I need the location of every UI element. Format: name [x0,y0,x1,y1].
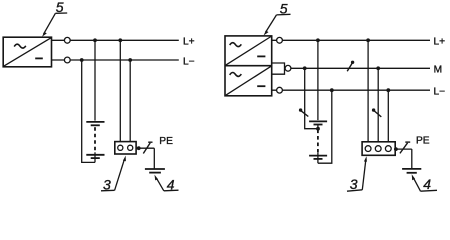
earth electrode (right): stem [317,153,319,163]
wire L&#8722; (left) [52,59,179,61]
terminal 1 circle (left block) [118,145,123,150]
AC symbol lower cell [230,72,242,76]
wire from L+ to terminal 1 (right block) [367,40,369,142]
earth electrode (left): long bar [86,154,104,156]
svg-text:4: 4 [423,176,431,192]
label 5 (right) with underline, leader and arrowhead [264,0,291,35]
wire from M to terminal 2 (right block) [377,68,379,142]
junction dot L+ / terminal block (right) [366,38,370,42]
PE disconnect slash (left) [143,143,150,154]
junction dot L+ / terminal block [118,38,122,42]
terminal block X2 (right, label 3) [362,142,395,156]
label 3 (left) with underline, leader and arrowhead [101,156,126,193]
junction dot at block output (right) [394,147,398,151]
svg-text:3: 3 [350,176,358,192]
removable link (dashed) to earth electrode (right) [317,130,319,153]
junction dot L+ / earth link [93,38,97,42]
terminal circle on right L+ [277,37,283,43]
earth symbol top of link (right): short bar [314,124,323,126]
earth symbol top of link (right): long bar [309,120,327,122]
label 4 (right) with underline, leader and arrowhead [412,174,437,192]
wire from L+ down to earth link (left) [94,40,96,120]
wire M (right) [285,67,431,69]
svg-text:L+: L+ [183,37,195,48]
svg-text:L−: L− [434,87,446,98]
wire from L&#8722; down to earth hook (right) [318,90,332,163]
label 3 (right) with underline, leader and arrowhead [347,156,367,192]
optional-link slash with ball on M earth branch [299,108,308,116]
power supply U1 (left, AC/DC converter box) [3,37,51,67]
junction dot L&#8722; / earth hook [80,58,84,62]
power supply U2 (right, dual AC/DC converter box) [225,36,272,96]
junction dot at block output (left) [137,146,141,150]
stem from earth symbol to junction (right) [317,125,319,129]
branch from M down to earth link (right) [305,68,318,128]
terminal 2 circle (right block) [375,146,381,152]
wire down to PE ground (left) [153,148,155,169]
junction dot L&#8722; / earth hook (right) [330,88,334,92]
svg-text:M: M [434,65,443,76]
svg-text:PE: PE [159,136,173,147]
minus mark lower cell [257,85,265,87]
label 4 (left) with underline, leader and arrowhead [155,175,179,193]
junction dot L&#8722; / terminal block (right) [386,88,390,92]
PE ground (right): long bar [402,168,421,170]
earth electrode (left): stem [94,152,96,162]
PE ground (left): long bar [145,168,165,170]
terminal block X1 (left, label 3) [115,142,136,154]
svg-text:PE: PE [416,135,430,146]
earth electrode (left): short bar [91,157,100,159]
label 5 (left) with underline, leader and arrowhead [42,0,67,37]
terminal circle on right L&#8722; [277,87,283,93]
wire from L&#8722; to terminal 3 (right block) [387,90,389,142]
PE disconnect tick (right) [405,141,410,143]
PE disconnect slash (right) [400,143,408,154]
junction dot M / earth branch [303,66,307,70]
minus mark upper cell [257,55,265,57]
terminal 3 circle (right block) [385,146,391,152]
wire from L&#8722; down to earth hook (left) [82,60,95,162]
PE disconnect tick (left) [148,141,152,143]
wire L&#8722; (right) [272,89,430,91]
earth electrode (right): long bar [309,155,327,157]
junction dot L+ / earth link (right) [316,38,320,42]
wire L+ (left) [52,39,179,41]
svg-text:L−: L− [183,56,195,67]
earth electrode (right): short bar [314,158,323,160]
earth symbol top of link (left): short bar [91,124,100,126]
wire from L+ to terminal 1 (left block) [119,40,121,141]
wire L+ (right) [272,39,430,41]
terminal 2 circle (left block) [128,145,133,150]
junction dot M / terminal block [376,66,380,70]
minus output mark in U1 [35,57,43,59]
AC symbol upper cell [230,43,242,47]
terminal 1 circle (right block) [365,146,371,152]
terminal circle on M [285,65,291,71]
junction dot on earth link (right) [316,127,320,131]
PE ground (right): short bar [407,172,417,174]
optional-link slash with ball on M block feed [372,108,381,117]
wire from L+ down to earth link (right) [317,40,319,120]
wire from L&#8722; to terminal 2 (left block) [129,60,131,142]
svg-text:L+: L+ [434,37,446,48]
optional-link slash with ball on M wire [347,61,354,72]
wire down to PE ground (right) [411,149,413,169]
PE ground (left): short bar [149,172,161,174]
wire block to PE (right) [395,148,412,150]
terminal circle on left L+ [64,37,70,43]
wire block to PE (left) [136,147,154,149]
junction dot L&#8722; / terminal block [128,58,132,62]
AC symbol (tilde) in U1 [14,44,26,48]
removable link (dashed) L+ to earth (left) [94,127,96,152]
terminal circle on left L&#8722; [64,57,70,63]
earth symbol top of link (left): long bar [86,121,104,123]
midpoint bracket joining the two cells [272,63,285,74]
